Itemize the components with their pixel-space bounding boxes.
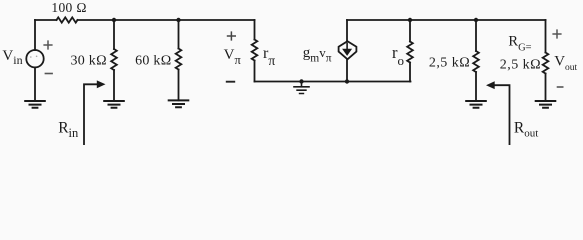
wire top rail right section [347, 19, 546, 21]
wire RG branch bottom [545, 74, 547, 101]
ground RG [536, 101, 556, 108]
svg-text:60 kΩ: 60 kΩ [135, 54, 172, 69]
arrowhead Rout [486, 81, 495, 89]
source Vin circle [26, 50, 43, 67]
node dot 30k top [112, 18, 116, 22]
resistor rpi zigzag [252, 40, 258, 61]
wire rpi branch top [254, 20, 256, 40]
wire RG branch top [545, 20, 547, 53]
current source gmvpi diamond [339, 41, 357, 59]
wire current source top [346, 20, 348, 42]
node dot 2.5k top [474, 18, 478, 22]
arrow Rout stem [494, 85, 510, 145]
wire 30k branch top [113, 20, 115, 49]
minus sign Vout [557, 86, 564, 88]
wire rpi branch bottom [254, 61, 256, 82]
source Vin tilde dots [30, 56, 37, 58]
wire ro branch bottom [409, 63, 411, 82]
ground middle [294, 82, 309, 94]
node dot 60k top [176, 18, 180, 22]
wire current source bottom [346, 60, 348, 82]
svg-text:2,5 kΩ: 2,5 kΩ [429, 56, 470, 71]
wire top rail left section [35, 19, 255, 21]
node dot ro top [408, 18, 412, 22]
wire 30k branch bottom [113, 70, 115, 100]
svg-text:100 Ω: 100 Ω [51, 0, 87, 15]
node dot ground middle [299, 79, 303, 83]
arrowhead Rin [97, 80, 106, 88]
wire 60k branch top [178, 20, 180, 49]
wire ro branch top [409, 20, 411, 42]
minus sign Vpi [226, 81, 235, 83]
arrow Rin stem [84, 84, 97, 145]
plus sign Vpi [227, 31, 236, 40]
node dot current source bottom [345, 79, 349, 83]
resistor 30k zigzag [111, 49, 117, 70]
wire bottom rail middle section [255, 81, 411, 83]
minus sign Vin [45, 73, 53, 75]
wire 2.5k branch bottom [475, 72, 477, 100]
ground 2.5k [466, 101, 486, 108]
ground 30k [104, 101, 124, 108]
resistor 2.5k zigzag [473, 51, 479, 72]
resistor ro zigzag [407, 42, 413, 63]
wire 60k branch bottom [178, 70, 180, 101]
svg-text:2,5 kΩ: 2,5 kΩ [500, 57, 541, 72]
ground Vin [25, 101, 45, 108]
current source arrow [346, 43, 348, 50]
resistor 100ohm zigzag [57, 17, 78, 22]
resistor RG zigzag [543, 53, 549, 74]
wire Vin branch bottom [34, 67, 36, 100]
ground 60k [169, 100, 189, 107]
plus sign Vin [43, 40, 52, 49]
wire 2.5k branch top [475, 20, 477, 51]
resistor 60k zigzag [176, 49, 182, 70]
svg-text:30 kΩ: 30 kΩ [71, 54, 108, 69]
plus sign Vout [552, 29, 561, 38]
wire Vin branch top [34, 20, 36, 50]
